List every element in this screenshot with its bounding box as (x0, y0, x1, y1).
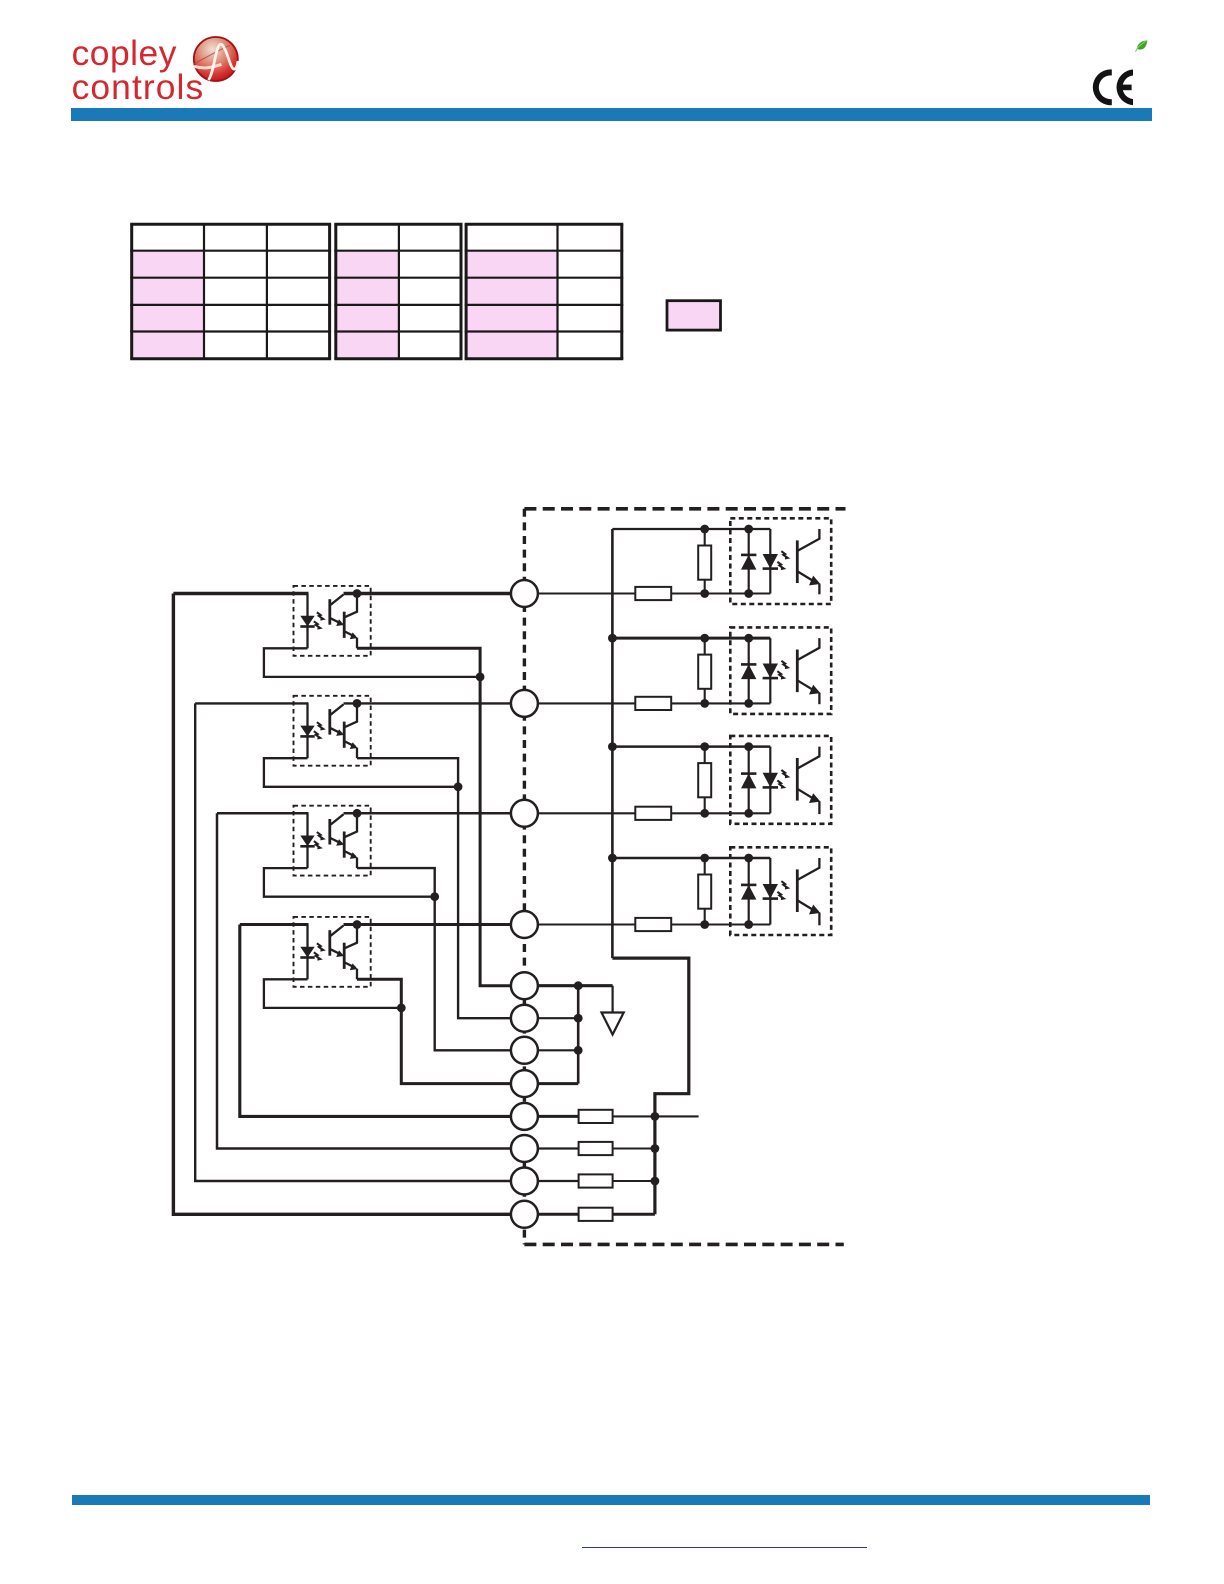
wire: bus lower path to pull resistor column (612, 958, 688, 1214)
logo sphere (193, 36, 239, 82)
junction nodes: R6 and diode taps (700, 634, 753, 708)
wire: IN1 bottom wire from pin 1 through R1 (538, 592, 770, 594)
wire: IN2 bottom wire from pin 2 through R2 (538, 702, 770, 704)
wire: IN3 top wire from bus to opto U7 (612, 745, 770, 748)
connector pin 6 (511, 1005, 538, 1032)
wire: U3 LED cathode return U-path (264, 868, 435, 897)
junction nodes: R8 and diode taps (700, 854, 753, 929)
wire: OUT2 wire from left bus through opto U2 to pin 2 (195, 702, 511, 704)
opto-isolator U7 (input: dual LED + phototransistor) (730, 736, 831, 824)
connector pin 1 (511, 580, 538, 607)
wire: U1 emitter drop to pin 5 (357, 648, 511, 985)
connector pin 9 (511, 1103, 538, 1130)
table: model selection (3 columns) (130, 224, 331, 359)
logo wordmark line 1: copley (72, 33, 177, 74)
connector pin 10 (511, 1135, 538, 1162)
table: options (2 columns) (334, 224, 462, 359)
bottom blue rule (72, 1495, 1150, 1505)
connector pin 5 (511, 972, 538, 999)
top blue rule (71, 108, 1152, 121)
connector pin 8 (511, 1070, 538, 1097)
logo wordmark line 2: controls (72, 67, 205, 108)
opto-isolator U5 (input: dual LED + phototransistor) (730, 518, 831, 604)
wire: IN3 bottom wire from pin 3 through R3 (538, 812, 770, 814)
connector pin 7 (511, 1037, 538, 1064)
opto-isolator U8 (input: dual LED + phototransistor) (730, 847, 831, 935)
wire: ground tie for pins 5-8 (538, 986, 578, 1084)
resistor R2 (series input) (635, 697, 671, 710)
wire: U2 LED cathode return U-path (264, 758, 458, 787)
junction node: bus tap IN2 (608, 634, 617, 643)
footer link underline (582, 1547, 867, 1549)
junction node: U2 cathode-emitter tie (454, 782, 463, 791)
connector boundary dashed outline (524, 509, 845, 1245)
connector pin 2 (511, 690, 538, 717)
junction node: bus tap IN3 (608, 742, 617, 751)
wire: input bus vertical (611, 529, 614, 958)
opto-isolator U1 (output: LED + Darlington phototransistor) (294, 586, 371, 656)
resistor R6 (bias, vertical) (698, 638, 711, 703)
resistor R11 (579, 1174, 613, 1187)
resistor R7 (bias, vertical) (698, 747, 711, 814)
wire: IN2 top wire from bus to opto U6 (612, 637, 770, 640)
junction nodes: R5 and diode taps (700, 525, 753, 598)
resistor R9 (579, 1110, 613, 1123)
wire: OUT1 wire from left bus through opto U1 to pin 1 (173, 592, 511, 595)
resistor R12 (579, 1208, 613, 1221)
resistor R3 (series input) (635, 807, 671, 820)
connector pin 11 (511, 1168, 538, 1195)
wire: OUT4 wire from left bus through opto U4 to pin 4 (240, 923, 511, 926)
wire: pin 5 to signal ground (538, 984, 613, 987)
connector pin column dashed line (523, 509, 526, 1245)
wire: pin 9 through pull resistor R9 (538, 1115, 699, 1118)
junction node: U3 cathode-emitter tie (430, 892, 439, 901)
wire: left return bus vertical to pin 11 (195, 703, 511, 1181)
ground symbol (602, 986, 624, 1035)
opto-isolator U6 (input: dual LED + phototransistor) (730, 627, 831, 714)
connector pin 3 (511, 800, 538, 827)
junction nodes: pull resistor column (651, 1112, 660, 1185)
legend swatch (pink highlight key) (667, 301, 721, 330)
resistor R1 (series input) (635, 587, 671, 600)
resistor R10 (579, 1142, 613, 1155)
junction node: bus tap IN4 (608, 854, 617, 863)
junction nodes: R7 and diode taps (700, 742, 753, 818)
wire: left return bus vertical to pin 9 (240, 925, 511, 1117)
opto-isolator U4 (output: LED + Darlington phototransistor) (294, 917, 371, 987)
wire: pin 12 through pull resistor R12 (538, 1213, 655, 1216)
wire: IN4 bottom wire from pin 4 through R4 (538, 923, 770, 925)
junction node: U1 cathode-emitter tie (476, 673, 485, 682)
CE mark (1088, 64, 1156, 111)
green leaf icon (1135, 39, 1149, 54)
connector pin 12 (511, 1201, 538, 1228)
wire: U2 emitter drop to pin 6 (357, 758, 511, 1018)
wire: IN1 top wire from bus to opto U5 (612, 528, 770, 530)
wire: U3 emitter drop to pin 7 (357, 868, 511, 1050)
wire: IN4 top wire from bus to opto U8 (612, 857, 770, 860)
table: accessories (2 columns) (465, 224, 624, 359)
junction nodes: ground ties (574, 981, 583, 1054)
opto-isolator U2 (output: LED + Darlington phototransistor) (294, 696, 371, 766)
wire: OUT3 wire from left bus through opto U3 to pin 3 (217, 812, 511, 815)
resistor R5 (bias, vertical) (698, 529, 711, 594)
wire: U1 LED cathode return U-path (264, 648, 480, 677)
wire: left return bus vertical to pin 10 (217, 813, 511, 1148)
wire: pin 11 through pull resistor R11 (538, 1180, 655, 1182)
connector pin 4 (511, 911, 538, 938)
resistor R4 (series input) (635, 918, 671, 931)
junction node: U4 cathode-emitter tie (397, 1004, 406, 1013)
wire: pin 10 through pull resistor R10 (538, 1147, 655, 1149)
wire: U4 emitter drop to pin 8 (357, 979, 511, 1083)
wire: U4 LED cathode return U-path (264, 979, 401, 1008)
resistor R8 (bias, vertical) (698, 858, 711, 925)
wire: left return bus vertical to pin 12 (173, 594, 511, 1215)
opto-isolator U3 (output: LED + Darlington phototransistor) (294, 806, 371, 876)
